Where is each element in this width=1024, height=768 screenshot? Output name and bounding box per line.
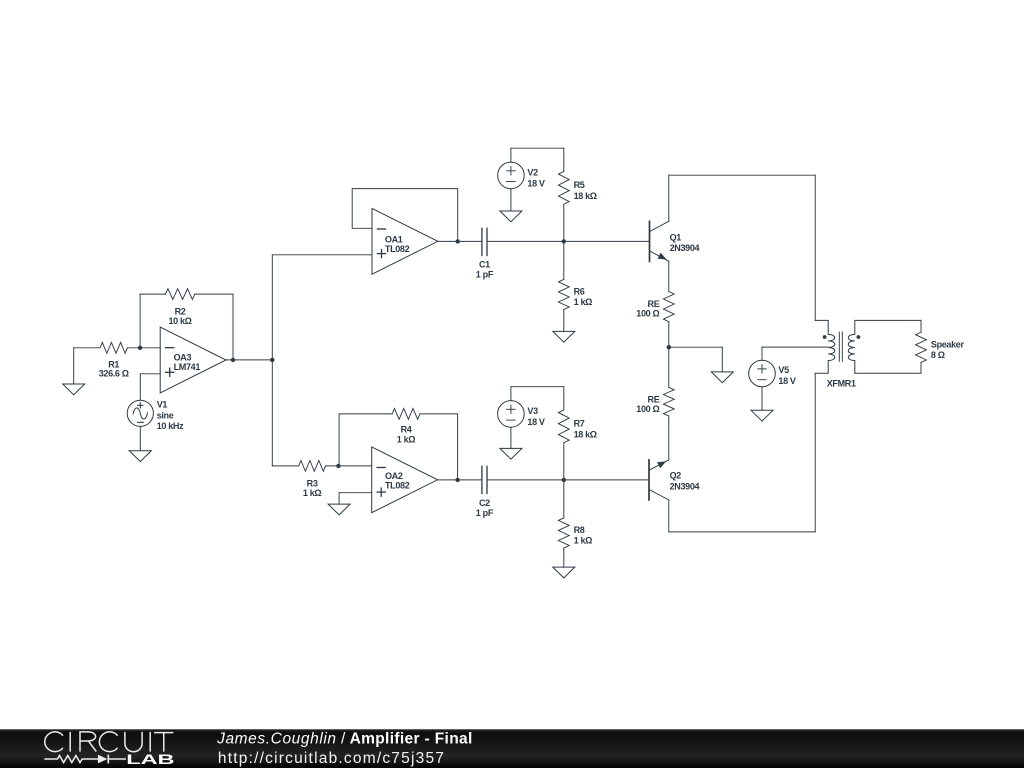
svg-text:2N3904: 2N3904: [670, 243, 700, 253]
svg-text:Q2: Q2: [670, 471, 682, 481]
svg-text:LM741: LM741: [174, 362, 201, 372]
svg-text:R3: R3: [307, 478, 318, 488]
svg-text:18 V: 18 V: [527, 417, 545, 427]
svg-text:1 kΩ: 1 kΩ: [303, 488, 322, 498]
svg-text:2N3904: 2N3904: [670, 481, 700, 491]
svg-text:V3: V3: [527, 406, 538, 416]
svg-text:OA2: OA2: [385, 471, 403, 481]
svg-text:XFMR1: XFMR1: [827, 378, 856, 388]
svg-text:OA1: OA1: [385, 234, 403, 244]
svg-text:C1: C1: [479, 260, 490, 270]
svg-text:James.Coughlin / Amplifier - F: James.Coughlin / Amplifier - Final: [216, 731, 473, 748]
svg-text:V1: V1: [157, 400, 168, 410]
svg-text:V2: V2: [527, 168, 538, 178]
svg-text:R4: R4: [401, 425, 412, 435]
svg-text:10 kΩ: 10 kΩ: [168, 316, 191, 326]
svg-text:18 kΩ: 18 kΩ: [574, 191, 597, 201]
svg-text:C2: C2: [479, 498, 490, 508]
svg-text:TL082: TL082: [385, 244, 410, 254]
svg-text:R8: R8: [574, 525, 585, 535]
svg-text:1 pF: 1 pF: [476, 508, 494, 518]
svg-text:V5: V5: [778, 365, 789, 375]
svg-text:18 V: 18 V: [527, 179, 545, 189]
svg-text:RE: RE: [648, 394, 660, 404]
svg-text:18 kΩ: 18 kΩ: [574, 429, 597, 439]
svg-text:TL082: TL082: [385, 481, 410, 491]
svg-text:R6: R6: [574, 286, 585, 296]
svg-text:http://circuitlab.com/c75j357: http://circuitlab.com/c75j357: [218, 750, 445, 767]
svg-text:Q1: Q1: [670, 232, 682, 242]
svg-text:Speaker: Speaker: [931, 339, 965, 349]
svg-text:10 kHz: 10 kHz: [157, 421, 184, 431]
svg-text:8 Ω: 8 Ω: [931, 350, 945, 360]
svg-text:1 pF: 1 pF: [476, 269, 494, 279]
svg-text:100 Ω: 100 Ω: [636, 404, 659, 414]
svg-text:1 kΩ: 1 kΩ: [574, 297, 593, 307]
svg-text:1 kΩ: 1 kΩ: [574, 536, 593, 546]
svg-text:R7: R7: [574, 419, 585, 429]
svg-text:18 V: 18 V: [778, 376, 796, 386]
svg-text:RE: RE: [648, 299, 660, 309]
svg-text:sine: sine: [157, 410, 174, 420]
svg-text:100 Ω: 100 Ω: [636, 309, 659, 319]
svg-text:1 kΩ: 1 kΩ: [397, 434, 416, 444]
svg-text:326.6 Ω: 326.6 Ω: [99, 369, 129, 379]
svg-text:LAB: LAB: [126, 751, 174, 767]
svg-text:R5: R5: [574, 180, 585, 190]
